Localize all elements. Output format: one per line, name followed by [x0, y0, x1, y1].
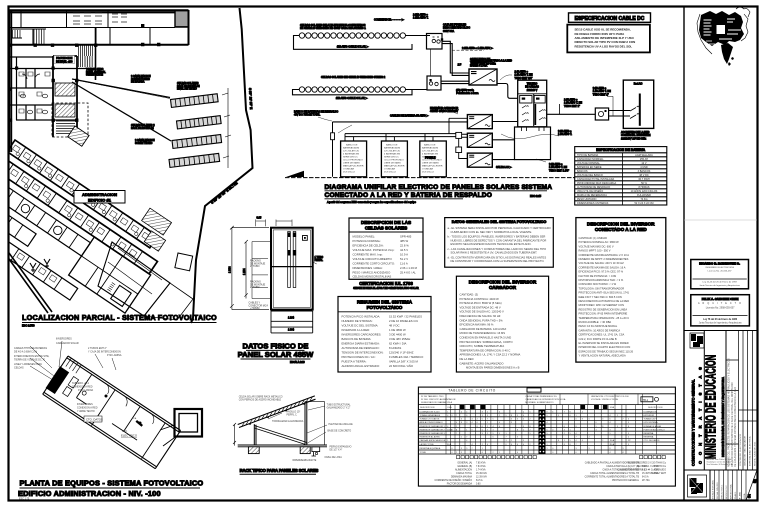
- svg-text:SUBESTACION / BARRA 125 A: SUBESTACION / BARRA 125 A: [421, 401, 452, 404]
- svg-text:SPR-485: SPR-485: [400, 235, 412, 239]
- TB bus bar: [533, 94, 535, 126]
- svg-text:2: 2: [487, 433, 488, 435]
- svg-text:8: 8: [511, 415, 512, 417]
- svg-text:CANTIDAD: (1) UNIDAD: CANTIDAD: (1) UNIDAD: [579, 236, 608, 240]
- svg-text:SERIE 48V DC: SERIE 48V DC: [384, 157, 399, 159]
- svg-text:TOMAS GENERALES: TOMAS GENERALES: [420, 414, 441, 417]
- svg-text:ESPECIALIDAD: ELECTRICA: ESPECIALIDAD: ELECTRICA: [749, 436, 752, 466]
- svg-text:1.74 KVA: 1.74 KVA: [476, 469, 486, 472]
- svg-text:3: 3: [487, 415, 488, 417]
- svg-text:CORRIENTE MAX. Imp:: CORRIENTE MAX. Imp:: [353, 253, 384, 257]
- svg-text:NUMERO DE STRINGS:: NUMERO DE STRINGS:: [342, 319, 373, 323]
- svg-text:4: 4: [472, 422, 473, 424]
- connecting walls to vault: [160, 425, 176, 446]
- svg-text:2.06 x 1.03 M: 2.06 x 1.03 M: [400, 266, 418, 270]
- svg-text:9: 9: [493, 433, 494, 435]
- svg-text:PESO UNITARIO: PESO UNITARIO: [577, 198, 596, 201]
- combiner CB2 output wires: [441, 81, 469, 83]
- svg-text:8: 8: [570, 444, 571, 446]
- svg-text:AGM SELLADA: AGM SELLADA: [635, 154, 653, 157]
- cable DC spec header box: [569, 13, 651, 22]
- svg-text:RESERVA EQUIPADA: RESERVA EQUIPADA: [420, 447, 441, 450]
- svg-text:CORRIENTE CORTO CIRCUITO:: CORRIENTE CORTO CIRCUITO:: [353, 262, 395, 266]
- svg-text:ESCALA: INDICADA: ESCALA: INDICADA: [711, 480, 714, 499]
- svg-text:BANCOS: BANCOS: [577, 170, 588, 173]
- svg-text:TUBO EMT 1 1/4": TUBO EMT 1 1/4": [549, 169, 569, 172]
- svg-text:CELDAS: CELDAS: [14, 367, 24, 370]
- svg-text:O SIMILAR: O SIMILAR: [343, 168, 354, 171]
- svg-text:ESPECIFICACION CABLE DC: ESPECIFICACION CABLE DC: [575, 16, 645, 22]
- svg-text:48 V DC: 48 V DC: [389, 324, 400, 328]
- svg-text:7: 7: [466, 437, 467, 439]
- tree symbols: [30, 259, 50, 272]
- svg-text:INVERSORES CARGADORES:: INVERSORES CARGADORES:: [342, 333, 382, 337]
- svg-text:CANTIDAD: (3): CANTIDAD: (3): [460, 293, 479, 297]
- svg-text:MODELO PANEL:: MODELO PANEL:: [353, 235, 376, 239]
- svg-text:ILUMINACION: ILUMINACION: [644, 410, 658, 413]
- svg-text:CICLO PROFUNDO: CICLO PROFUNDO: [384, 160, 404, 162]
- svg-text:VOLTAJE DE SALIDA AC: 120/240: VOLTAJE DE SALIDA AC: 120/240 V: [460, 310, 504, 314]
- svg-text:POTENCIA NOMINAL:: POTENCIA NOMINAL:: [353, 239, 382, 243]
- svg-text:11.6 A: 11.6 A: [400, 262, 408, 266]
- wing 4 lower band: [0, 167, 36, 247]
- svg-text:ESCALA 1:20: ESCALA 1:20: [290, 361, 305, 364]
- svg-text:DIMENSIONES / AREA:: DIMENSIONES / AREA:: [353, 266, 383, 270]
- svg-text:TABLERO DE CIRCUITO: TABLERO DE CIRCUITO: [448, 389, 496, 393]
- svg-text:4 BATERIAS EN: 4 BATERIAS EN: [384, 153, 401, 156]
- svg-text:UBICACION: CTO ELECTRICO N-100: UBICACION: CTO ELECTRICO N-100: [591, 395, 629, 398]
- svg-text:CAPACIDAD TOTAL INSTALADA: CAPACIDAD TOTAL INSTALADA: [577, 178, 615, 181]
- svg-text:CORRIENTE TOTAL ALIMENTADORES: CORRIENTE TOTAL ALIMENTADORES A TOTAL TB: [585, 476, 640, 479]
- svg-text:8 HORAS: 8 HORAS: [639, 186, 650, 189]
- svg-text:4: 4: [447, 415, 448, 417]
- battery spec texts: [343, 144, 443, 174]
- contractor section frame: [684, 331, 757, 471]
- svg-text:CELDAS MONOCRISTALINAS: CELDAS MONOCRISTALINAS: [353, 275, 392, 279]
- svg-text:TUBO EMT 1": TUBO EMT 1": [564, 105, 580, 108]
- svg-text:TUBO EMT 1": TUBO EMT 1": [593, 93, 609, 96]
- wing 3 garden band with trees: [0, 154, 90, 256]
- svg-text:04: 04: [748, 494, 752, 498]
- svg-text:NUMERO DE MPPT: 2 INDEPENDIENT: NUMERO DE MPPT: 2 INDEPENDIENTES: [579, 257, 629, 261]
- shaft stair hatch: [56, 121, 75, 134]
- svg-text:20 A: 20 A: [610, 443, 615, 446]
- svg-text:CELDAS SOLARES EN SERIE 16 UNI: CELDAS SOLARES EN SERIE 16 UNIDADES STRI…: [321, 76, 386, 79]
- svg-text:2: 2: [530, 444, 531, 446]
- svg-text:6: 6: [552, 411, 553, 413]
- svg-text:4: 4: [472, 444, 473, 446]
- svg-text:5: 5: [547, 433, 548, 435]
- svg-text:MARCA FULLRIVER: MARCA FULLRIVER: [384, 165, 405, 168]
- svg-text:7: 7: [456, 415, 457, 417]
- svg-text:AHORRO ANUAL ESTIMADO:: AHORRO ANUAL ESTIMADO:: [342, 364, 381, 368]
- svg-text:CONEXION EN PARALELO HASTA 3 U: CONEXION EN PARALELO HASTA 3 UND: [460, 336, 512, 340]
- svg-text:CERTIFICACION IUL 1703: CERTIFICACION IUL 1703: [359, 281, 413, 286]
- big rooms right side: [69, 237, 151, 313]
- svg-text:7.64 KVA: 7.64 KVA: [476, 465, 486, 468]
- svg-text:VOLTAJE DC DEL SISTEMA:: VOLTAJE DC DEL SISTEMA:: [342, 324, 379, 328]
- svg-text:DEMANDA MAXIMA: DEMANDA MAXIMA: [451, 476, 473, 479]
- svg-text:INTERIOR DEL CUARTO ELECTRICO: INTERIOR DEL CUARTO ELECTRICO CON: [579, 345, 631, 349]
- svg-text:0: 0: [499, 422, 500, 424]
- svg-text:4: 4: [610, 415, 611, 417]
- svg-text:PLETINA DE ANCLAJE: PLETINA DE ANCLAJE: [329, 423, 354, 426]
- partition walls: [68, 374, 165, 458]
- battery bank B3: [420, 141, 447, 177]
- svg-text:ESCRITO SEGUN ESPECIFICACION T: ESCRITO SEGUN ESPECIFICACION TECNICA DE …: [451, 242, 532, 246]
- svg-text:2P-70A: 2P-70A: [642, 479, 650, 482]
- open courtyard polygons lower right: [98, 242, 170, 316]
- svg-text:SUBESTACION: SUBESTACION: [86, 74, 103, 77]
- svg-text:0: 0: [523, 419, 524, 421]
- dim line outer: [230, 226, 269, 310]
- svg-text:DATOS FISICO DE: DATOS FISICO DE: [243, 342, 309, 351]
- svg-text:0: 0: [570, 415, 571, 417]
- svg-text:0: 0: [523, 415, 524, 417]
- svg-text:30 A: 30 A: [610, 439, 615, 442]
- svg-text:FECHA: JUNIO DE 2021: FECHA: JUNIO DE 2021: [754, 441, 757, 466]
- building north wing walls: [9, 10, 189, 152]
- svg-text:HOJA: HOJA: [743, 493, 746, 499]
- inverter U4 charger: [467, 153, 492, 167]
- svg-text:9: 9: [547, 411, 548, 413]
- bateria spec table: [575, 147, 667, 205]
- svg-text:4: 4: [517, 452, 518, 454]
- svg-text:CORRIENTE MAXIMA DE SALIDA: 16: CORRIENTE MAXIMA DE SALIDA: 16 A: [579, 265, 626, 269]
- column header labels: [420, 406, 663, 409]
- svg-text:PERFIL C: PERFIL C: [287, 414, 298, 416]
- svg-text:ELECTRICO: ELECTRICO: [121, 434, 138, 438]
- svg-text:LA RED TOTAL: LA RED TOTAL: [420, 443, 435, 446]
- svg-text:NEUTRAL 1 X 2/0 THHN Cu: NEUTRAL 1 X 2/0 THHN Cu: [637, 465, 667, 468]
- svg-text:4: 4: [582, 440, 583, 442]
- svg-text:2: 2: [617, 415, 618, 417]
- ramp dense hatch: [84, 56, 94, 67]
- PV string 2 modules: [299, 87, 405, 92]
- svg-text:48 V DC: 48 V DC: [639, 174, 649, 177]
- meter M: [595, 108, 608, 120]
- wing 1 furniture: [11, 145, 150, 242]
- door arcs: [101, 383, 157, 424]
- svg-text:TUBO ESTRUCTURAL: TUBO ESTRUCTURAL: [327, 404, 352, 407]
- svg-text:0: 0: [517, 444, 518, 446]
- svg-text:APROBACIONES: UL 1741 Y CSA 22: APROBACIONES: UL 1741 Y CSA 22.2 Y NORMA: [460, 353, 521, 357]
- svg-text:DE CONSTRUIR Y COORDINARA CON: DE CONSTRUIR Y COORDINARA CON LA SUPERVI…: [451, 259, 545, 263]
- svg-text:3: 3: [576, 448, 577, 450]
- detached tilted square: [175, 253, 193, 271]
- svg-text:EFICIENCIA DE CELDA:: EFICIENCIA DE CELDA:: [353, 244, 384, 248]
- svg-text:POTENCIA NOMINAL AC: 3800 W: POTENCIA NOMINAL AC: 3800 W: [579, 240, 620, 244]
- svg-text:6: 6: [576, 452, 577, 454]
- svg-text:8: 8: [482, 411, 483, 413]
- svg-text:POTENCIA PICO INSTALADA:: POTENCIA PICO INSTALADA:: [342, 315, 381, 319]
- svg-text:25.4 KG / AL: 25.4 KG / AL: [400, 271, 416, 275]
- svg-text:ADMINISTRACION: ADMINISTRACION: [82, 192, 117, 197]
- svg-text:2: 2: [523, 429, 524, 431]
- svg-text:O SIMILAR: O SIMILAR: [422, 168, 433, 171]
- svg-text:9: 9: [472, 429, 473, 431]
- ramp lines cluster: [79, 45, 93, 67]
- svg-text:3: 3: [511, 419, 512, 421]
- svg-text:INVERSOR A LA RED:: INVERSOR A LA RED:: [342, 328, 371, 332]
- svg-text:0.35: 0.35: [257, 217, 262, 220]
- svg-text:VOLTAJE MAXIMO DC: 600 V: VOLTAJE MAXIMO DC: 600 V: [579, 244, 614, 248]
- svg-text:3 DE 4400 W: 3 DE 4400 W: [389, 333, 406, 337]
- svg-text:8: 8: [582, 419, 583, 421]
- svg-text:DATOS GENERALES DEL SISTEMA FO: DATOS GENERALES DEL SISTEMA FOTOVOLTAICO: [452, 220, 547, 224]
- solar array row 1: [171, 94, 219, 108]
- svg-text:7: 7: [576, 444, 577, 446]
- svg-text:TABLERO: TABLERO: [527, 83, 538, 86]
- svg-text:CORRIENTE DE DISEÑO / DISEÑO: CORRIENTE DE DISEÑO / DISEÑO: [434, 479, 472, 482]
- svg-text:1: 1: [506, 433, 507, 435]
- svg-text:PLANTA DE EQUIPOS - SISTEMA FO: PLANTA DE EQUIPOS - SISTEMA FOTOVOLTAICO: [20, 479, 204, 488]
- svg-text:12V 255 AH C/U: 12V 255 AH C/U: [343, 150, 359, 153]
- footings: [248, 447, 259, 454]
- left dim line: [233, 423, 236, 446]
- svg-text:RACK TIPICO PARA PANELES SOLAR: RACK TIPICO PARA PANELES SOLARES: [240, 468, 319, 473]
- svg-text:MONTAJE EN PARED DIMENSIONES: MONTAJE EN PARED DIMENSIONES A x B: [466, 366, 520, 370]
- proyeccion label box: [54, 56, 75, 64]
- wing 2 furniture: [0, 162, 137, 260]
- inversor red box: [576, 218, 666, 363]
- svg-text:FOTOVOLTAICO: FOTOVOLTAICO: [367, 305, 403, 310]
- site boundary line east: [191, 8, 253, 323]
- svg-text:30 A: 30 A: [447, 443, 452, 446]
- svg-text:4: 4: [576, 440, 577, 442]
- inversor cargador box: [456, 276, 548, 372]
- svg-text:1: 1: [447, 440, 448, 442]
- svg-text:TB-1: TB-1: [643, 398, 649, 402]
- electrical vault double square: [175, 409, 203, 437]
- svg-text:2: 2: [482, 444, 483, 446]
- svg-text:INVERSORES: INVERSORES: [56, 338, 72, 341]
- grid breakers: [630, 106, 639, 118]
- svg-text:SOLAR RHW-2 RESISTENTE A UV, C: SOLAR RHW-2 RESISTENTE A UV, CANALIZADOS…: [451, 251, 538, 255]
- svg-text:8: 8: [564, 444, 565, 446]
- svg-text:6: 6: [477, 426, 478, 428]
- svg-text:120/240 V: 120/240 V: [527, 90, 538, 92]
- svg-text:5: 5: [530, 411, 531, 413]
- svg-text:36.7 KWH: 36.7 KWH: [638, 178, 650, 181]
- svg-text:3: 3: [517, 437, 518, 439]
- svg-text:MODO DE TRANSFERENCIA: 16 MS: MODO DE TRANSFERENCIA: 16 MS: [460, 331, 506, 335]
- svg-text:KVA: KVA: [448, 406, 453, 409]
- svg-text:RESERVA: RESERVA: [644, 436, 654, 439]
- svg-text:DE CARGAS: DE CARGAS: [525, 86, 539, 89]
- svg-text:Red AC: Red AC: [634, 82, 643, 85]
- interior labels: [72, 382, 128, 433]
- wing 1 rooms: [7, 140, 157, 248]
- svg-text:BANCO DE: BANCO DE: [346, 144, 358, 147]
- svg-text:0: 0: [452, 452, 453, 454]
- svg-text:EXTERIOR: EXTERIOR: [644, 415, 655, 417]
- svg-text:3: 3: [623, 448, 624, 450]
- svg-text:EL INVERSOR SE INSTALARA EN PA: EL INVERSOR SE INSTALARA EN PARED: [579, 341, 629, 345]
- front post: [254, 424, 256, 445]
- svg-text:E - 004: E - 004: [738, 492, 741, 499]
- svg-text:PLANO:: PLANO:: [734, 491, 737, 499]
- svg-text:BATERIAS AGM: BATERIAS AGM: [384, 147, 400, 150]
- svg-text:600V 30A: 600V 30A: [443, 30, 454, 33]
- svg-text:Y VENTILACION NATURAL ADECUADA: Y VENTILACION NATURAL ADECUADA: [579, 354, 626, 358]
- top dim: [256, 219, 266, 226]
- svg-text:LOCALIZACION PARCIAL - SISTEM: LOCALIZACION PARCIAL - SISTEMA FOTOVOLTA…: [22, 313, 217, 322]
- svg-text:VOLTAJE: 120/240 V 1F 3H: VOLTAJE: 120/240 V 1F 3H: [591, 398, 619, 401]
- svg-text:2: 2: [602, 440, 603, 442]
- svg-text:8: 8: [610, 448, 611, 450]
- svg-text:P.A: P.A: [133, 417, 137, 420]
- U2 output wire: [492, 121, 517, 123]
- svg-text:1 #10 AWG T.: 1 #10 AWG T.: [413, 17, 429, 20]
- svg-text:0: 0: [452, 415, 453, 417]
- svg-text:4: 4: [466, 411, 467, 413]
- svg-text:DISTORSION ARMONICA THD: < 3 %: DISTORSION ARMONICA THD: < 3 %: [579, 278, 624, 282]
- svg-text:INVERSOR CARGADOR 1: INVERSOR CARGADOR 1: [420, 425, 446, 428]
- bottom strip mini table: [709, 470, 711, 501]
- svg-text:IEEE 1547 Y NEC 690.4 / 690.5: IEEE 1547 Y NEC 690.4 / 690.5 CON: [579, 295, 622, 299]
- svg-text:CARGA TOTAL: CARGA TOTAL: [456, 472, 473, 475]
- entry steps: [66, 358, 82, 373]
- svg-text:CONDUCTOR A TIERRA 1 X #4 Cu: CONDUCTOR A TIERRA 1 X #4 Cu DESNUDO: [617, 469, 666, 472]
- svg-text:5: 5: [596, 426, 597, 428]
- svg-text:TORNILLERIA GALVANIZADA: TORNILLERIA GALVANIZADA: [272, 420, 304, 423]
- svg-text:6: 6: [596, 422, 597, 424]
- svg-text:8: 8: [602, 426, 603, 428]
- svg-text:2: 2: [530, 419, 531, 421]
- svg-text:6: 6: [499, 426, 500, 428]
- svg-text:2" TUBO: 2" TUBO: [250, 286, 260, 289]
- svg-text:TOTAL: TOTAL: [420, 451, 427, 454]
- svg-text:BANCO DE: BANCO DE: [424, 144, 436, 147]
- svg-text:KVA: KVA: [610, 406, 615, 409]
- svg-text:TOPOLOGIA: SIN TRANSFORMADOR: TOPOLOGIA: SIN TRANSFORMADOR: [579, 286, 625, 290]
- svg-text:TOMAS CTO DATOS: TOMAS CTO DATOS: [420, 418, 440, 421]
- svg-text:64.5 A: 64.5 A: [476, 479, 483, 482]
- toilet fixtures: [20, 74, 47, 114]
- svg-text:4: 4: [456, 422, 457, 424]
- svg-text:1 164: 1 164: [288, 317, 295, 320]
- svg-text:0: 0: [552, 448, 553, 450]
- svg-text:8: 8: [576, 426, 577, 428]
- svg-text:2: 2: [477, 419, 478, 421]
- column dots: [9, 24, 161, 122]
- svg-text:CELDAS SOLARES: CELDAS SOLARES: [365, 226, 407, 231]
- svg-text:6: 6: [511, 444, 512, 446]
- west rooms walls: [9, 57, 95, 120]
- svg-text:#10 AWG CABLE SOLAR ➤: #10 AWG CABLE SOLAR ➤: [336, 97, 368, 100]
- svg-text:RESERVA: RESERVA: [644, 432, 654, 435]
- svg-text:7: 7: [623, 419, 624, 421]
- svg-text:DESCONEXION AUTOMATICA DE LA R: DESCONEXION AUTOMATICA DE LA RED: [579, 299, 630, 303]
- svg-text:0: 0: [482, 419, 483, 421]
- svg-text:DC8 255-12: DC8 255-12: [384, 172, 397, 174]
- svg-text:7: 7: [564, 411, 565, 413]
- svg-text:DC8 255-12: DC8 255-12: [343, 172, 356, 174]
- svg-text:9: 9: [523, 426, 524, 428]
- svg-text:8: 8: [628, 426, 629, 428]
- svg-text:62 KWH / DIA: 62 KWH / DIA: [389, 342, 407, 346]
- svg-text:6: 6: [628, 419, 629, 421]
- svg-text:CELDA SOLAR SOBRE RACK METALIC: CELDA SOLAR SOBRE RACK METALICO: [239, 396, 283, 399]
- inverter U1 grid-tie: [469, 69, 497, 85]
- svg-text:ILUMINACION N-100: ILUMINACION N-100: [420, 410, 441, 413]
- svg-text:FRECUENCIA DE SALIDA: 60 HZ: FRECUENCIA DE SALIDA: 60 HZ: [460, 314, 501, 318]
- svg-text:BASE DE CONCRETO: BASE DE CONCRETO: [328, 430, 352, 433]
- svg-text:FUSIBLES 30A / TERMICO: FUSIBLES 30A / TERMICO: [389, 355, 424, 359]
- leader lines to arrays: [72, 79, 171, 141]
- svg-text:0: 0: [477, 422, 478, 424]
- DC fuse F3: [456, 147, 462, 153]
- svg-text:DESCRIPCION: DESCRIPCION: [648, 407, 663, 409]
- svg-text:9: 9: [628, 444, 629, 446]
- svg-text:TENSION DE INTERCONEXION:: TENSION DE INTERCONEXION:: [342, 351, 384, 355]
- svg-text:DIBUJO: R.R.G.: DIBUJO: R.R.G.: [721, 484, 723, 499]
- DC fuse F1: [331, 133, 335, 140]
- leader curve from cabinet: [501, 134, 559, 139]
- svg-text:4: 4: [493, 426, 494, 428]
- svg-text:TUBO EMT 3/4": TUBO EMT 3/4": [515, 77, 533, 80]
- svg-text:52 X 24 X 22 CM: 52 X 24 X 22 CM: [634, 202, 653, 205]
- svg-text:Junta Tecnica de Ingenieria y: Junta Tecnica de Ingenieria y Arquitectu…: [699, 284, 740, 287]
- svg-text:64.5 A: 64.5 A: [642, 476, 649, 479]
- svg-text:2: 2: [610, 444, 611, 446]
- svg-text:6: 6: [482, 429, 483, 431]
- wing 5 band: [0, 227, 78, 300]
- svg-text:CABLES DE BATERIA 4/0 AWG ➤: CABLES DE BATERIA 4/0 AWG ➤: [390, 115, 429, 118]
- equipment room band walls: [42, 355, 181, 468]
- svg-text:2: 2: [499, 415, 500, 417]
- svg-text:POTENCIA PICO: 8500 W (5 SEG): POTENCIA PICO: 8500 W (5 SEG): [460, 301, 502, 305]
- svg-text:PROTECCIONES DC / AC:: PROTECCIONES DC / AC:: [342, 355, 376, 359]
- svg-text:TIERRA DE VOLTAJE DC 70: TIERRA DE VOLTAJE DC 70: [14, 359, 46, 362]
- svg-text:INVERSOR CARGADOR 2: INVERSOR CARGADOR 2: [420, 428, 446, 431]
- svg-text:4 BATERIAS EN: 4 BATERIAS EN: [343, 153, 360, 156]
- utility grid box: [623, 80, 653, 128]
- svg-text:EDIFICIO #1: EDIFICIO #1: [88, 197, 112, 202]
- small emblem contractor: [690, 333, 704, 348]
- svg-text:FULLRIVER: FULLRIVER: [637, 194, 651, 197]
- svg-text:ALIMENTACION: ALIMENTACION: [455, 469, 472, 472]
- rear support frame: [305, 402, 307, 445]
- svg-text:7: 7: [487, 429, 488, 431]
- svg-text:SALIDA AC ➤: SALIDA AC ➤: [496, 166, 512, 169]
- svg-text:0: 0: [482, 426, 483, 428]
- svg-text:1: 1: [466, 429, 467, 431]
- side view below: [271, 311, 313, 333]
- svg-text:EN SERIE 16 UNIDADES DE 485W C: EN SERIE 16 UNIDADES DE 485W CADA UNA ST…: [300, 27, 366, 30]
- PV string 1 modules: [299, 33, 405, 38]
- svg-text:NUEVOS, LIBRES DE DEFECTOS Y C: NUEVOS, LIBRES DE DEFECTOS Y CON GARANTI…: [451, 238, 547, 242]
- rack labels: [239, 396, 353, 462]
- small squares row bottom: [457, 455, 666, 458]
- svg-text:ESC 1:15: ESC 1:15: [530, 194, 542, 198]
- svg-text:0: 0: [552, 452, 553, 454]
- PV string 1 return wire: [294, 36, 431, 50]
- svg-text:7.85 KVA: 7.85 KVA: [476, 462, 486, 465]
- svg-text:DE BAJADA: DE BAJADA: [131, 81, 145, 84]
- svg-text:2: 2: [456, 426, 457, 428]
- battery taps: [345, 134, 433, 141]
- svg-text:BATERIAS AGM: BATERIAS AGM: [422, 147, 438, 150]
- svg-text:CARGADOR SOLAR: CARGADOR SOLAR: [56, 342, 79, 345]
- svg-text:ESPACIOS DE TRABAJO SEGUN NEC: ESPACIOS DE TRABAJO SEGUN NEC 110.26: [579, 349, 634, 353]
- svg-text:BATERIAS EN SERIE: BATERIAS EN SERIE: [577, 166, 602, 169]
- svg-text:2: 2: [487, 411, 488, 413]
- svg-text:MINISTERIO DE EDUCACION: MINISTERIO DE EDUCACION: [704, 355, 719, 459]
- svg-text:2 #10 AWG + 1 #10 AWG ➤: 2 #10 AWG + 1 #10 AWG ➤: [462, 47, 494, 50]
- svg-text:TOMAS 120 V: TOMAS 120 V: [644, 418, 658, 421]
